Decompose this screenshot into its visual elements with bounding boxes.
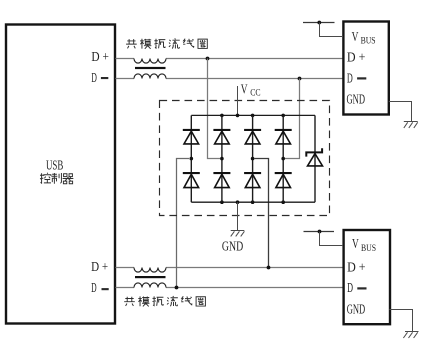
wire GND box bottom to earth [389, 310, 412, 332]
wire node A to D2 midpoint [208, 59, 221, 159]
node B junction dot D- top [298, 77, 302, 81]
svg-text:BUS: BUS [361, 244, 376, 254]
choke L1 winding upper (D+) [134, 59, 166, 64]
top rail (VCC bus) [191, 114, 315, 116]
earth symbol bottom right [403, 332, 418, 339]
svg-text:USB: USB [46, 158, 63, 173]
svg-text:D +: D + [347, 259, 366, 274]
column 2 wire [221, 115, 223, 202]
label VBUS bottom [352, 236, 376, 254]
VBUS supply bar bottom [304, 231, 335, 233]
GND stub wire [237, 202, 239, 231]
wire node B to D4 midpoint [285, 79, 300, 159]
label VCC [241, 82, 261, 98]
column 3 wire [252, 115, 254, 202]
dashed box ESD protection array [160, 101, 330, 216]
zener TVS diode DZ1 [306, 148, 322, 166]
svg-text:CC: CC [250, 87, 260, 97]
wire VBUS bar to box top [320, 23, 344, 37]
diode D6 (col2 lower) [213, 172, 230, 188]
svg-text:D: D [347, 280, 353, 295]
wire D+ bottom [116, 267, 344, 269]
node D2 midpoint dot [220, 157, 224, 161]
diode D1 (col1 upper) [183, 129, 200, 144]
earth symbol top right [404, 122, 418, 129]
VBUS bar junction dot bottom [318, 230, 322, 234]
node D junction dot D+ bottom [267, 266, 271, 270]
diode D4 (col4 upper) [275, 129, 292, 144]
label 共模扼流线圈 top [126, 38, 207, 48]
node C junction dot D- bottom [175, 286, 179, 290]
label VBUS top [352, 29, 376, 47]
node D3 midpoint dot [251, 157, 255, 161]
node D4 midpoint dot [281, 157, 285, 161]
label 控制器 [40, 173, 73, 184]
VBUS bar junction dot top [317, 21, 321, 25]
svg-text:D: D [91, 280, 97, 295]
diode D3 (col3 upper) [244, 129, 261, 144]
svg-text:V: V [352, 236, 359, 251]
diode D8 (col4 lower) [275, 172, 292, 188]
svg-text:D: D [347, 70, 353, 85]
VBUS supply bar top [303, 22, 335, 24]
svg-text:GND: GND [347, 92, 366, 107]
choke L1 core bar [135, 67, 166, 69]
bottom rail (GND bus) [191, 201, 315, 203]
wire D+ top [116, 58, 344, 60]
svg-text:V: V [352, 29, 359, 44]
zener column wire [314, 115, 316, 202]
diode D5 (col1 lower) [183, 172, 200, 188]
top rail junction dots [220, 114, 285, 118]
svg-text:BUS: BUS [361, 37, 376, 47]
wire D3 midpoint to D+ bottom [255, 159, 269, 268]
pin label D- box bottom [347, 280, 366, 295]
svg-text:D +: D + [91, 49, 109, 64]
VBUS box top (connector) [343, 22, 388, 115]
column 4 wire [282, 115, 284, 202]
pin label D- box top [347, 70, 366, 85]
column 1 wire [190, 115, 192, 202]
pin label D- top [91, 70, 108, 85]
svg-text:D +: D + [91, 259, 108, 274]
wire D1 midpoint to D- bottom [177, 159, 190, 288]
VBUS box bottom (connector) [344, 230, 390, 324]
earth symbol center [231, 231, 245, 237]
wire VBUS bar to box bottom [320, 232, 344, 246]
wire D- top [116, 78, 344, 80]
node D1 midpoint dot [190, 157, 194, 161]
diode D7 (col3 lower) [244, 172, 261, 188]
wire D- bottom [116, 287, 344, 289]
svg-text:V: V [241, 82, 248, 97]
bottom rail junction dots [220, 200, 285, 204]
choke L2 core bar [135, 276, 166, 278]
choke L2 winding lower (D-) [134, 283, 166, 288]
pin label D- bottom [91, 280, 109, 295]
svg-text:GND: GND [347, 302, 366, 317]
USB controller box U1 [6, 25, 115, 324]
svg-text:D +: D + [347, 49, 366, 64]
svg-text:GND: GND [222, 238, 243, 253]
VCC stub wire [237, 86, 239, 115]
diode D2 (col2 upper) [213, 129, 230, 144]
label 共模扼流线圈 bottom [124, 296, 205, 306]
wire GND box top to earth [389, 102, 412, 122]
node A junction dot D+ top [206, 57, 210, 61]
choke L2 winding upper (D+) [134, 268, 166, 273]
choke L1 winding lower (D-) [134, 74, 166, 79]
svg-text:D: D [91, 70, 97, 85]
